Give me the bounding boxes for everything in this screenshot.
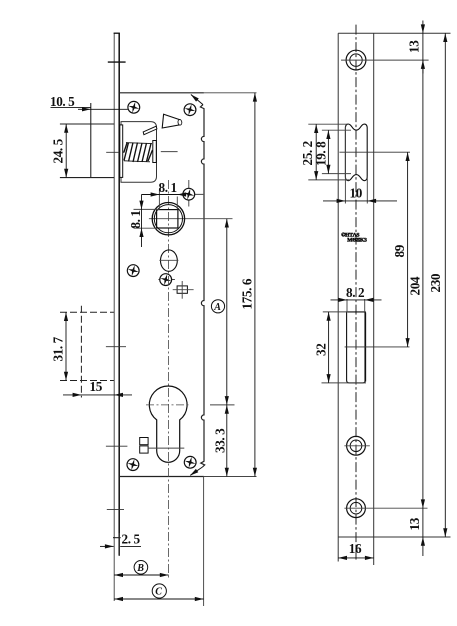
svg-text:89: 89 bbox=[392, 244, 407, 257]
dim 230 bbox=[428, 33, 447, 537]
dashed slider box + dim 31.7 bbox=[51, 306, 114, 398]
oval tick bbox=[159, 259, 178, 261]
dim B bbox=[114, 561, 168, 578]
svg-text:13: 13 bbox=[407, 517, 422, 530]
svg-text:2. 5: 2. 5 bbox=[122, 532, 141, 547]
centerline tick latch right segment bbox=[161, 151, 178, 153]
svg-text:31. 7: 31. 7 bbox=[51, 336, 66, 361]
dim 2.5 bbox=[100, 532, 141, 557]
dim 8.2 bbox=[331, 285, 382, 312]
lock case right edge with notches bbox=[200, 105, 204, 467]
svg-text:32: 32 bbox=[314, 343, 329, 356]
plate vertical centerline bbox=[355, 25, 357, 560]
latch side-view rectangle + dim 24.5 bbox=[51, 124, 115, 178]
centerline tick y346.7 bbox=[106, 346, 126, 348]
svg-text:C: C bbox=[155, 586, 162, 597]
hub vertical centerline bbox=[167, 180, 169, 578]
svg-text:16: 16 bbox=[349, 541, 362, 556]
svg-text:230: 230 bbox=[428, 273, 443, 292]
hub outer circle bbox=[152, 203, 184, 235]
dim 8.1 vertical bbox=[128, 195, 160, 248]
bottom hole bbox=[344, 499, 427, 518]
square marker with cross bbox=[173, 281, 194, 299]
faceplate right edge bbox=[118, 33, 120, 555]
dim 33.3 bbox=[213, 405, 229, 477]
svg-text:13: 13 bbox=[406, 40, 421, 53]
latch spring bbox=[124, 143, 153, 163]
dim C bbox=[114, 584, 203, 601]
svg-text:A: A bbox=[213, 302, 221, 313]
screw S5 below oval bbox=[158, 273, 175, 287]
screw S2 top-right bbox=[183, 103, 197, 117]
svg-text:B: B bbox=[136, 563, 144, 574]
dim 10 bbox=[323, 126, 397, 203]
case bottom edge bbox=[119, 476, 204, 478]
dim 175.6 bbox=[240, 93, 258, 477]
svg-text:33. 3: 33. 3 bbox=[213, 428, 228, 453]
euro cylinder hole bbox=[149, 386, 187, 462]
plate outline bbox=[337, 33, 339, 561]
hub inner circle bbox=[154, 205, 182, 233]
screw S7 bottom-right bbox=[183, 455, 197, 469]
corner break mark bottom right bbox=[189, 467, 203, 477]
svg-text:8. 2: 8. 2 bbox=[346, 285, 365, 300]
dim 10.5 bbox=[50, 94, 128, 178]
case top extension line to 175.6 dim bbox=[204, 92, 257, 94]
cone piece bbox=[162, 114, 180, 128]
dim 32 bbox=[314, 312, 367, 383]
svg-text:204: 204 bbox=[408, 276, 423, 295]
latch center tick bbox=[339, 151, 410, 153]
dim 25.2 bbox=[300, 124, 349, 180]
oval hole bbox=[161, 250, 178, 271]
spring keeper plate bbox=[153, 141, 157, 163]
corner break mark top right bbox=[189, 93, 203, 105]
dim 89 bbox=[392, 152, 410, 347]
svg-text:10: 10 bbox=[350, 186, 363, 201]
svg-text:8. 1: 8. 1 bbox=[159, 180, 177, 195]
svg-text:15: 15 bbox=[90, 379, 103, 394]
dim 204 bbox=[408, 60, 426, 508]
latch cutout bbox=[345, 124, 367, 181]
screw S6 bottom-left bbox=[126, 458, 140, 472]
centerline tick y62 bbox=[108, 61, 126, 63]
buckle detail bbox=[140, 438, 185, 454]
screw S4 mid-left bbox=[126, 264, 140, 278]
dim 16 bbox=[338, 541, 374, 560]
lever bar bbox=[143, 126, 157, 135]
faceplate top cap bbox=[114, 32, 120, 34]
latch bolt head bbox=[120, 125, 123, 177]
svg-text:MΘΞKЗ: MΘΞKЗ bbox=[347, 238, 367, 244]
dim 15 bbox=[63, 379, 132, 397]
svg-text:175. 6: 175. 6 bbox=[240, 278, 255, 309]
hub horizontal centerline bbox=[149, 218, 233, 220]
faceplate bottom tick bbox=[113, 537, 121, 539]
centerline tick y446.2 bbox=[106, 445, 128, 447]
svg-text:8. 1: 8. 1 bbox=[128, 210, 143, 228]
dim 13 top bbox=[406, 21, 425, 74]
logo stamp bbox=[341, 232, 367, 244]
case bottom extension to 175.6 dim bbox=[204, 476, 257, 478]
centerline tick y509.4 bbox=[107, 508, 124, 510]
svg-text:19. 8: 19. 8 bbox=[313, 141, 328, 166]
screw S3 near hub bbox=[182, 180, 203, 207]
hub square hole bbox=[157, 210, 178, 228]
lock case top edge bbox=[119, 92, 204, 94]
screw S1 top-left bbox=[127, 100, 141, 114]
dim 13 bottom bbox=[407, 508, 425, 556]
deadbolt slot bbox=[347, 312, 366, 383]
dim 19.8 bbox=[313, 130, 351, 173]
case right edge extension down to C dim bbox=[203, 477, 205, 607]
cylinder horizontal centerline bbox=[146, 404, 190, 406]
faceplate left edge bbox=[113, 33, 115, 601]
top screw hole bbox=[341, 50, 429, 70]
svg-text:24. 5: 24. 5 bbox=[51, 138, 66, 163]
dim A (hub to cylinder) bbox=[210, 219, 235, 405]
dim 8.1 horizontal bbox=[142, 180, 187, 209]
centerline tick latch y152 bbox=[106, 151, 124, 153]
latch housing box bbox=[121, 122, 157, 183]
slot center tick bbox=[345, 346, 410, 348]
svg-text:10. 5: 10. 5 bbox=[50, 94, 75, 109]
middle hole bbox=[344, 436, 369, 455]
